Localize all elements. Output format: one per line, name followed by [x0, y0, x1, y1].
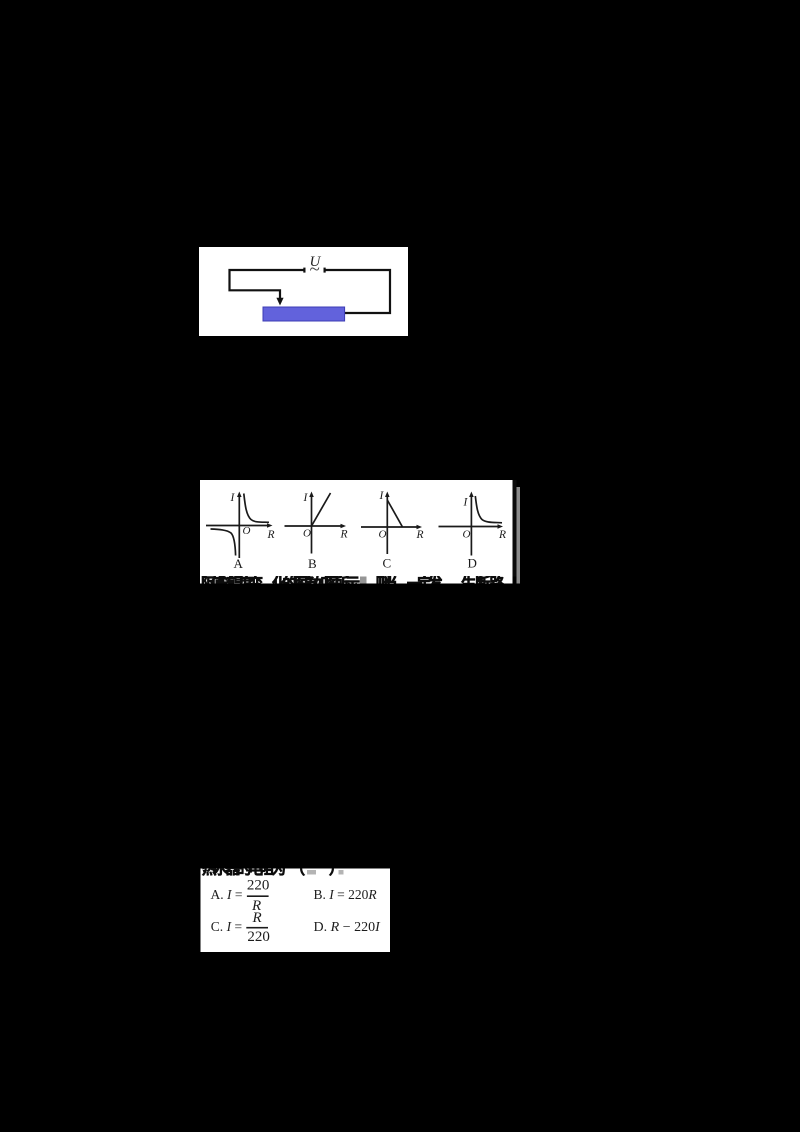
graph C	[361, 492, 422, 555]
D: I axis	[470, 496, 472, 556]
D: hyperbola first quadrant	[475, 496, 502, 523]
D: R axis	[439, 526, 499, 528]
svg-text:D. R − 220I: D. R − 220I	[314, 920, 382, 935]
graph B	[285, 492, 347, 554]
A: hyperbola first quadrant	[244, 494, 269, 523]
D: I axis arrowhead	[469, 492, 474, 498]
svg-text:220: 220	[247, 878, 270, 894]
B: straight line through origin	[312, 493, 331, 526]
A: hyperbola third quadrant	[211, 529, 236, 556]
panel background	[201, 869, 391, 953]
svg-text:A: A	[234, 556, 244, 571]
rheostat R (blue resistor body)	[263, 307, 345, 321]
censored text line (tops visible)	[201, 575, 505, 593]
svg-text:A. I =: A. I =	[211, 887, 243, 902]
svg-text:R: R	[267, 529, 275, 541]
graph A	[206, 492, 273, 559]
wire : arrowhead onto rheostat slider	[276, 298, 283, 306]
A: R axis	[206, 525, 268, 527]
svg-text:B. I = 220R: B. I = 220R	[314, 887, 378, 902]
C: R axis arrowhead	[417, 525, 423, 530]
svg-text:R: R	[252, 910, 262, 926]
B: R axis arrowhead	[341, 524, 347, 529]
svg-text:（: （	[291, 868, 306, 878]
terminal cap left of source gap	[303, 268, 305, 273]
C: I axis	[386, 496, 388, 554]
svg-text:R: R	[340, 529, 348, 541]
terminal cap right of source gap	[324, 268, 326, 273]
wire : top-left segment, left drop and lower horizontal to slider	[230, 270, 304, 299]
svg-text:O: O	[463, 528, 471, 540]
svg-text:R: R	[498, 529, 506, 541]
white panel 1 : circuit figure	[199, 247, 408, 336]
gray smudge in censored band	[360, 577, 367, 584]
C: I axis arrowhead	[385, 492, 390, 498]
C: R axis	[361, 526, 418, 528]
A: I axis	[238, 496, 240, 558]
white panel 3 : answer options	[200, 868, 390, 952]
svg-text:~: ~	[310, 259, 320, 280]
graph D	[439, 492, 504, 556]
svg-text:D: D	[468, 556, 477, 571]
white panel 2 : four I-R graphs	[199, 480, 520, 584]
svg-text:热水器的电阻为: 热水器的电阻为	[202, 868, 286, 878]
wire : top-right segment, right drop and bottom horizontal	[324, 270, 390, 313]
svg-text:O: O	[379, 528, 387, 540]
svg-text:220: 220	[247, 929, 270, 945]
A: R axis arrowhead	[267, 523, 273, 528]
B: I axis arrowhead	[309, 492, 314, 498]
D: R axis arrowhead	[498, 524, 504, 529]
A: I axis arrowhead	[237, 492, 242, 498]
scan artifact black bar right edge	[513, 480, 517, 577]
svg-text:B: B	[308, 556, 317, 571]
B: I axis	[311, 496, 313, 554]
C: straight descending line	[387, 500, 402, 527]
svg-text:O: O	[243, 525, 251, 537]
gray ghost marks in censored line	[307, 870, 316, 875]
option A fraction bar	[247, 895, 269, 897]
svg-text:C: C	[383, 556, 392, 571]
B: R axis	[285, 525, 342, 527]
scan artifact gray bar right edge	[517, 487, 521, 584]
option C fraction bar	[246, 927, 268, 929]
censored question line (bottoms visible)	[202, 860, 344, 878]
svg-text:R: R	[416, 529, 424, 541]
panel background	[200, 480, 513, 576]
svg-text:O: O	[303, 527, 311, 539]
white strip of partially covered text line	[200, 576, 513, 584]
svg-text:C. I =: C. I =	[211, 919, 242, 934]
